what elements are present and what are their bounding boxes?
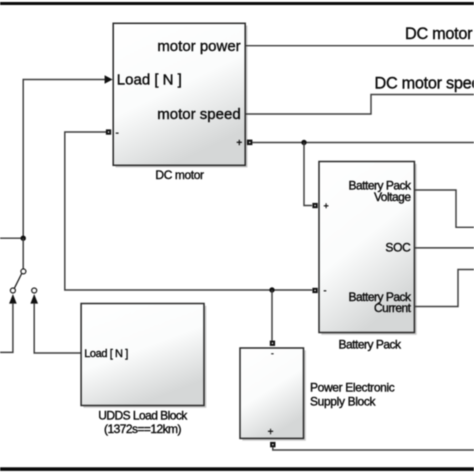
wire: motor speed output stepping up to right edge [246, 95, 474, 115]
svg-text:-: - [324, 286, 327, 296]
wire: branch down to battery plus [304, 143, 312, 206]
Supply block top port square [270, 341, 275, 346]
DC motor minus port square [106, 129, 111, 134]
arrowhead into Load port [105, 75, 113, 83]
wire: DC motor plus net to right edge [252, 142, 474, 144]
wire: battery voltage output to right edge [415, 190, 474, 227]
svg-text:UDDS Load Block: UDDS Load Block [98, 408, 188, 422]
DC motor block U1 [113, 23, 247, 167]
wire: right throw feed from UDDS block [34, 303, 81, 353]
wire: branch down to supply block [271, 290, 273, 341]
svg-text:motor power: motor power [157, 38, 240, 55]
svg-text:SOC: SOC [385, 240, 411, 254]
Power Electronic Supply Block U4 [240, 348, 306, 441]
svg-text:-: - [271, 348, 274, 358]
figure top border [0, 2, 474, 5]
wire: supply bottom output to right edge [273, 447, 474, 450]
svg-text:+: + [324, 201, 329, 211]
svg-text:DC motor power: DC motor power [405, 25, 474, 43]
UDDS Load Block U3 [81, 304, 206, 408]
junction node on minus net [269, 287, 274, 292]
wire: DC motor minus net down and across [65, 132, 312, 290]
svg-text:DC motor: DC motor [155, 168, 204, 182]
DC motor plus port square [247, 140, 253, 146]
switch S1 pole contact circle [21, 269, 26, 274]
svg-text:Current: Current [374, 301, 412, 315]
svg-text:(1372s==12km): (1372s==12km) [104, 422, 181, 436]
junction node on plus net [301, 140, 306, 145]
junction node at switch pole [21, 236, 26, 241]
arrowhead into left throw [9, 294, 17, 304]
svg-text:motor speed: motor speed [157, 106, 240, 123]
svg-text:Power Electronic: Power Electronic [310, 381, 395, 395]
figure bottom border [0, 467, 474, 471]
svg-text:Load [ N ]: Load [ N ] [84, 348, 128, 360]
switch throw contact circle right [32, 288, 37, 293]
svg-text:-: - [116, 128, 119, 139]
wire: motor power output to right edge [246, 45, 474, 47]
svg-text:Load [ N ]: Load [ N ] [117, 72, 182, 89]
wire: SOC output to right edge [415, 247, 474, 249]
svg-text:Battery Pack: Battery Pack [338, 338, 402, 352]
Supply block bottom port square [270, 442, 275, 447]
Battery Pack block U2 [319, 162, 417, 335]
svg-text:DC motor speed: DC motor speed [375, 74, 474, 92]
svg-text:Voltage: Voltage [374, 190, 411, 204]
svg-text:+: + [236, 138, 242, 149]
svg-text:+: + [268, 427, 274, 438]
switch throw contact circle left [10, 288, 15, 293]
svg-text:Supply Block: Supply Block [310, 395, 377, 409]
wire: left throw feed from left edge [0, 303, 13, 352]
Battery plus port square [312, 203, 317, 208]
switch blade (diagonal) [14, 274, 21, 289]
wire: battery current output to right edge [415, 270, 474, 307]
arrowhead into right throw [30, 294, 38, 304]
wire: switch pole down-lead [22, 238, 24, 268]
wire: Load input net from left edge via switch pole [0, 80, 105, 239]
Battery minus port square [312, 288, 317, 293]
